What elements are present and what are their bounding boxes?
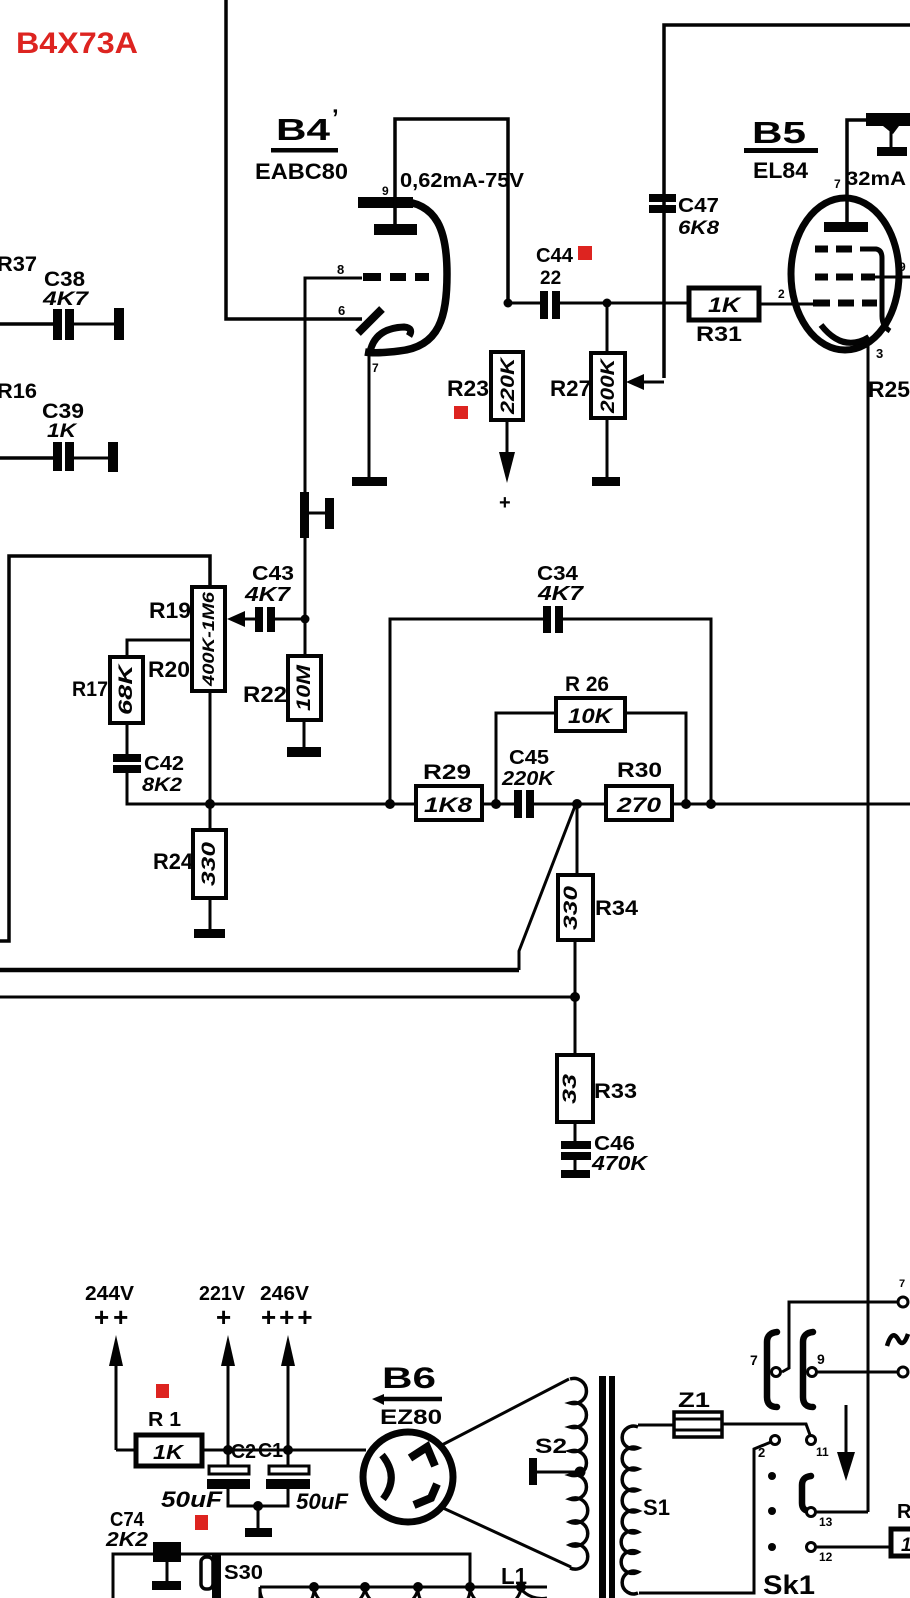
svg-text:EL84: EL84 xyxy=(753,158,809,183)
wire center node to R34 xyxy=(576,804,579,875)
wire contact 12 to resistor xyxy=(816,1546,891,1549)
wire R31 to B5 grid pin2 xyxy=(759,303,814,306)
B4 cathode bar xyxy=(374,224,417,235)
svg-text:R 1: R 1 xyxy=(148,1409,181,1431)
node R26 right xyxy=(681,799,691,809)
svg-text:4K7: 4K7 xyxy=(244,584,291,606)
wire C43 to node xyxy=(275,618,305,621)
svg-text:400K-1M6: 400K-1M6 xyxy=(199,591,218,687)
node R26 left xyxy=(491,799,501,809)
wire B4 pin8 xyxy=(305,278,362,619)
B4 grid slash xyxy=(358,309,382,333)
svg-text:R20: R20 xyxy=(148,657,190,682)
svg-text:Z1: Z1 xyxy=(678,1389,710,1412)
svg-text:12: 12 xyxy=(819,1550,833,1564)
svg-text:4K7: 4K7 xyxy=(42,289,90,310)
svg-text:22: 22 xyxy=(540,268,561,289)
wires C1 C2 to chassis xyxy=(228,1489,288,1506)
R26 loop wires xyxy=(496,713,556,804)
wire R34 to R33 xyxy=(574,940,577,1055)
svg-text:2: 2 xyxy=(758,1445,765,1460)
svg-text:1K: 1K xyxy=(708,294,742,317)
tube B4 envelope xyxy=(365,201,447,353)
capacitor C38 xyxy=(53,309,62,340)
svg-text:6: 6 xyxy=(338,303,345,318)
tube B6 rectifier xyxy=(363,1432,453,1522)
capacitor C34 xyxy=(543,606,551,633)
svg-text:R29: R29 xyxy=(423,761,471,784)
switch actuation arrow xyxy=(845,1405,848,1455)
capacitor C45 xyxy=(514,790,522,818)
svg-text:C74: C74 xyxy=(110,1509,145,1531)
svg-text:1: 1 xyxy=(901,1535,910,1556)
C34 loop wires xyxy=(390,619,543,804)
resistor R31 xyxy=(689,288,759,320)
supply arrow 221V xyxy=(227,1363,230,1465)
svg-text:R22: R22 xyxy=(243,682,287,707)
B6 anode bottom xyxy=(414,1484,437,1505)
svg-text:R34: R34 xyxy=(595,897,638,920)
node R19/R24/bus xyxy=(205,799,215,809)
resistor R24 xyxy=(193,830,226,898)
svg-text:9: 9 xyxy=(817,1351,825,1367)
wire heater line xyxy=(113,1554,470,1598)
svg-text:50uF: 50uF xyxy=(296,1489,349,1514)
svg-text:200K: 200K xyxy=(598,357,619,414)
choke L1 xyxy=(260,1586,547,1589)
wire R24 to chassis xyxy=(209,898,212,930)
svg-text:R30: R30 xyxy=(617,759,662,782)
capacitor C74 feedthrough xyxy=(153,1542,181,1562)
svg-text:2: 2 xyxy=(778,287,785,301)
terminal bar top right xyxy=(866,113,910,126)
mains terminal circle lower xyxy=(898,1367,908,1377)
chassis bar (R24) xyxy=(194,929,225,938)
B5 cathode arc xyxy=(821,325,869,343)
supply arrow 244V xyxy=(115,1363,118,1450)
switch contact bar 9 xyxy=(803,1332,813,1407)
wire B6 to S2 top xyxy=(440,1379,569,1446)
resistor R26 xyxy=(556,698,625,731)
B6 underline arrow xyxy=(382,1397,442,1402)
resistor R33 xyxy=(557,1055,593,1122)
node C2 xyxy=(223,1445,233,1455)
svg-text:9: 9 xyxy=(899,260,906,274)
wire terminal to switch contact 7 xyxy=(782,1302,898,1372)
svg-text:R25: R25 xyxy=(868,377,910,402)
node center bus xyxy=(572,799,582,809)
svg-text:S2: S2 xyxy=(535,1435,567,1458)
svg-text:L1: L1 xyxy=(501,1563,527,1589)
B4 cathode arc xyxy=(370,327,411,352)
capacitor C47 xyxy=(649,194,676,202)
svg-text:7: 7 xyxy=(899,1278,905,1290)
svg-text:9: 9 xyxy=(382,184,389,198)
wire node down to R22 xyxy=(304,619,307,656)
thin bus wire xyxy=(0,996,575,999)
svg-text:32mA: 32mA xyxy=(846,169,906,190)
wire contact 13 to R25 line xyxy=(816,1511,868,1514)
wire B6 to S2 bottom xyxy=(443,1508,571,1567)
svg-text:Sk1: Sk1 xyxy=(763,1570,815,1598)
supply arrow 246V xyxy=(287,1363,290,1465)
svg-text:R27: R27 xyxy=(550,376,591,401)
tube B5 envelope xyxy=(791,198,899,350)
svg-text:S1: S1 xyxy=(643,1495,670,1520)
chassis bar (R27) xyxy=(592,477,620,486)
svg-text:R 26: R 26 xyxy=(565,673,609,696)
svg-text:C42: C42 xyxy=(144,753,184,775)
capacitor C44 xyxy=(540,291,548,319)
svg-text:R33: R33 xyxy=(594,1080,637,1103)
resistor R1 xyxy=(136,1435,202,1466)
wire C39 left xyxy=(0,456,53,460)
main bus wire xyxy=(210,803,416,806)
svg-text:33: 33 xyxy=(560,1073,581,1104)
svg-text:1K8: 1K8 xyxy=(424,794,472,817)
svg-text:R37: R37 xyxy=(0,253,37,276)
red square below 50uF xyxy=(195,1515,208,1530)
node C34 right xyxy=(706,799,716,809)
svg-text:R24: R24 xyxy=(153,849,194,874)
chassis bar (B4 cathode) xyxy=(352,477,387,486)
svg-text:R23: R23 xyxy=(447,376,489,401)
svg-text:C1: C1 xyxy=(258,1440,283,1462)
wire S1 bottom to contact 2 xyxy=(639,1442,771,1593)
capacitor stub on pin8 line xyxy=(300,492,309,538)
capacitor C43 xyxy=(255,607,263,632)
svg-text:B5: B5 xyxy=(752,115,806,150)
terminal bar (C39) xyxy=(108,442,118,472)
capacitor C1 electrolytic xyxy=(269,1466,309,1474)
chassis bar (R22) xyxy=(287,747,321,757)
wire C44 to R31 xyxy=(560,302,689,305)
svg-text:B6: B6 xyxy=(382,1362,436,1395)
wire R22 to chassis xyxy=(303,720,306,748)
fuse Z1 xyxy=(674,1412,722,1437)
svg-text:1K: 1K xyxy=(153,1442,185,1464)
wire C44 node to R27 xyxy=(606,303,609,353)
svg-text:ʼ: ʼ xyxy=(332,105,339,132)
contact circle 12 xyxy=(807,1543,816,1552)
node C43/R22 xyxy=(301,615,310,624)
terminal bar (C38) xyxy=(114,308,124,340)
transformer winding S2 xyxy=(570,1378,588,1569)
resistor R23 xyxy=(491,352,523,420)
wire from top edge to B4 grid xyxy=(226,0,362,319)
svg-text:220K: 220K xyxy=(501,768,556,790)
contact circle 11 xyxy=(807,1436,816,1445)
resistor R29 xyxy=(416,786,482,820)
svg-text:7: 7 xyxy=(372,361,379,375)
wire top bus to C47 and wiper xyxy=(664,25,910,378)
wire R19 bottom through node to R24 xyxy=(209,691,212,830)
R27 wiper arm xyxy=(642,381,664,384)
B6 cathode arc xyxy=(382,1455,391,1499)
wire pin9 to C44 node xyxy=(395,119,508,303)
resistor R17 xyxy=(110,657,143,723)
capacitor C39 xyxy=(53,442,62,471)
svg-text:C34: C34 xyxy=(537,563,579,585)
wire C42 to main bus xyxy=(127,773,210,804)
fuse S30 xyxy=(201,1557,213,1589)
B5 control grid dashes row3 xyxy=(813,300,877,307)
B5 grid g3 dashes row2 and pin9 wire xyxy=(815,274,875,281)
B4 diode plate dashes xyxy=(363,273,429,281)
svg-text:470K: 470K xyxy=(591,1153,649,1175)
transformer core xyxy=(599,1376,606,1598)
node at R23 top / C44 xyxy=(504,299,513,308)
wire R27 to chassis xyxy=(606,418,609,478)
tilde mains mark xyxy=(887,1334,908,1346)
wire R17 bottom to C42 xyxy=(126,723,129,754)
svg-text:S30: S30 xyxy=(224,1562,263,1584)
wire B5 pin3 down to Sk1 contact 13 xyxy=(867,338,870,1512)
svg-text:C47: C47 xyxy=(678,195,719,217)
capacitor C2 electrolytic xyxy=(209,1466,249,1474)
B5 anode plate xyxy=(824,222,868,232)
terminal tap with bar xyxy=(883,126,899,134)
diagonal wire to feedback bus xyxy=(519,806,575,970)
wire R1 to B6 xyxy=(202,1449,366,1452)
svg-text:B4X73A: B4X73A xyxy=(16,27,138,60)
svg-text:C46: C46 xyxy=(594,1133,635,1155)
arrow down (R23 return) xyxy=(499,452,515,483)
svg-text:+: + xyxy=(499,492,511,514)
wire R17 top to R20 xyxy=(127,640,192,657)
svg-text:C2: C2 xyxy=(231,1441,256,1463)
contact circle 9 xyxy=(808,1368,817,1377)
resistor at right edge xyxy=(891,1529,910,1556)
svg-text:+++: +++ xyxy=(261,1302,316,1332)
svg-text:R16: R16 xyxy=(0,380,37,403)
svg-text:R19: R19 xyxy=(149,598,191,623)
svg-text:C39: C39 xyxy=(42,400,84,423)
svg-text:1K: 1K xyxy=(47,421,78,442)
red square near R1 xyxy=(156,1384,169,1398)
svg-text:68K: 68K xyxy=(116,663,137,715)
red square near R23 xyxy=(454,406,468,419)
svg-text:B4: B4 xyxy=(276,112,331,147)
svg-text:7: 7 xyxy=(750,1352,758,1368)
contact circle 7 xyxy=(772,1368,781,1377)
transformer winding S1 xyxy=(621,1426,638,1594)
svg-text:2K2: 2K2 xyxy=(105,1529,148,1551)
svg-text:R31: R31 xyxy=(696,323,742,346)
svg-text:6K8: 6K8 xyxy=(678,218,720,239)
svg-text:11: 11 xyxy=(816,1445,829,1459)
mains terminal circle top xyxy=(898,1297,908,1307)
svg-text:+: + xyxy=(216,1302,231,1332)
svg-text:4K7: 4K7 xyxy=(537,583,584,605)
wire B4 pin7 to chassis xyxy=(368,354,371,478)
wire B5 pin7 anode xyxy=(847,120,866,222)
S2 center tap xyxy=(529,1458,537,1485)
svg-text:C44: C44 xyxy=(536,245,574,267)
chassis bar (C1 C2) xyxy=(245,1528,272,1537)
svg-text:220K: 220K xyxy=(498,356,519,415)
svg-text:EABC80: EABC80 xyxy=(255,159,348,184)
mechanical link dots xyxy=(768,1472,776,1480)
svg-text:3: 3 xyxy=(876,346,883,361)
wire C38 left xyxy=(0,322,53,326)
svg-text:R17: R17 xyxy=(72,678,108,701)
L1 nodes xyxy=(309,1582,319,1592)
svg-text:0,62mA-75V: 0,62mA-75V xyxy=(400,170,525,192)
switch contact bar 13 xyxy=(802,1476,811,1511)
wire to C44 xyxy=(508,302,540,305)
svg-text:330: 330 xyxy=(561,885,582,930)
svg-text:C45: C45 xyxy=(509,747,549,769)
svg-text:50uF: 50uF xyxy=(161,1487,223,1512)
wire S1 top to Z1 xyxy=(638,1424,674,1427)
capacitor C46 xyxy=(561,1141,591,1149)
B6 anode top xyxy=(410,1447,435,1466)
wire C38 right xyxy=(74,323,114,326)
resistor R34 xyxy=(558,875,593,940)
B4 anode plate pin9 xyxy=(358,197,413,208)
node R34/bus xyxy=(570,992,580,1002)
svg-text:R: R xyxy=(897,1501,910,1523)
resistor R30 xyxy=(606,786,672,820)
R19 wiper arm from C43 xyxy=(244,618,256,621)
svg-text:270: 270 xyxy=(616,794,662,817)
switch contact bar 7 xyxy=(767,1332,777,1407)
resistor R22 xyxy=(288,656,321,720)
capacitor C42 xyxy=(113,754,141,762)
contact circle 13 xyxy=(807,1508,816,1517)
wire R23 to arrow xyxy=(506,420,509,455)
wire contact 9 to terminal xyxy=(817,1371,898,1374)
potentiometer R19/R20 xyxy=(192,587,225,691)
wire C39 right xyxy=(74,457,108,460)
potentiometer R27 xyxy=(591,353,625,418)
wire Z1 to contact 11 xyxy=(722,1424,810,1435)
node C44/R27 xyxy=(603,299,612,308)
wire arrow to R1 xyxy=(116,1449,136,1452)
svg-text:7: 7 xyxy=(834,177,841,191)
wire R33 to C46 xyxy=(574,1122,577,1143)
svg-text:10K: 10K xyxy=(568,705,614,728)
contact circle 2 xyxy=(771,1436,780,1445)
node C34 left xyxy=(385,799,395,809)
svg-text:10M: 10M xyxy=(294,664,315,711)
red square near C44 xyxy=(578,246,592,260)
wire left feed to R19 top xyxy=(0,556,210,941)
svg-text:8K2: 8K2 xyxy=(142,775,182,796)
node C1 xyxy=(283,1445,293,1455)
svg-text:C38: C38 xyxy=(44,268,85,291)
B5 grid g2 dashes row1 with tail to pin3 side xyxy=(815,246,852,253)
svg-text:C43: C43 xyxy=(252,563,294,585)
svg-text:++: ++ xyxy=(94,1302,132,1332)
svg-text:8: 8 xyxy=(337,262,344,277)
svg-text:EZ80: EZ80 xyxy=(380,1406,442,1429)
svg-text:330: 330 xyxy=(199,841,220,886)
thick bus wire xyxy=(0,968,519,973)
svg-text:13: 13 xyxy=(819,1515,833,1529)
